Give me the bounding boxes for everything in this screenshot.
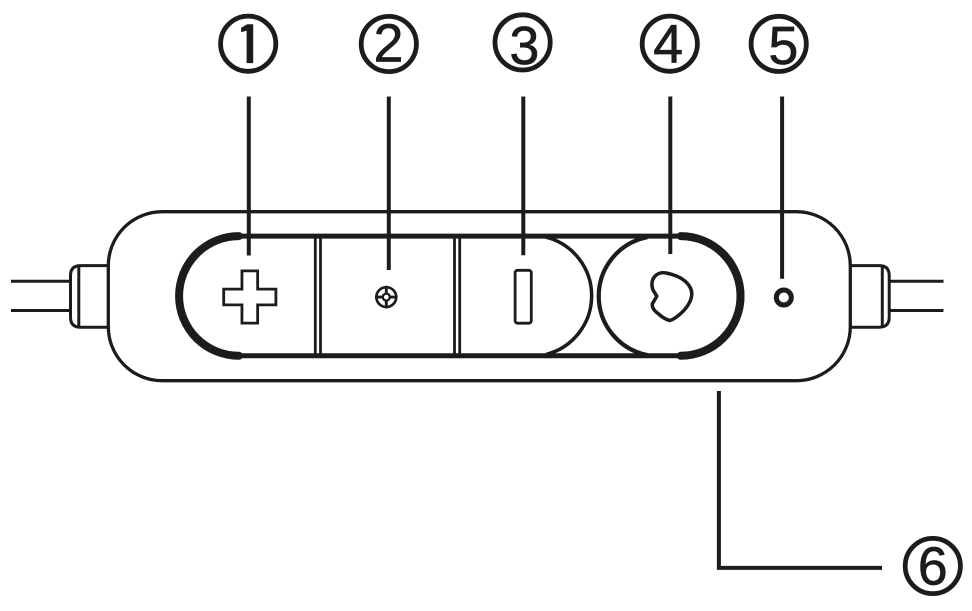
svg-text:5: 5 [769, 17, 799, 76]
callout circle 5 [751, 16, 806, 76]
callout circle 6 [905, 538, 960, 597]
svg-text:6: 6 [918, 538, 948, 597]
cluster left thick cap [179, 236, 239, 356]
strain relief bushing right [848, 266, 889, 328]
wire right [889, 281, 944, 310]
callout circle 4 [642, 15, 697, 74]
wire left [11, 281, 71, 310]
leader line 1 [247, 97, 251, 256]
leader line 6 [719, 391, 882, 568]
heart icon (button 4) [652, 273, 692, 321]
callout circle 1 [221, 16, 276, 71]
callout circle 2 [361, 14, 416, 73]
leader line 2 [387, 97, 391, 271]
plus icon (volume up button 1) [224, 271, 276, 323]
button cluster pill [179, 236, 742, 356]
button 3 circle right-half arc [546, 237, 591, 354]
button 4 circle left-half arc [599, 237, 648, 355]
divider lines between button 2 and 3 [455, 237, 460, 356]
leader line 4 [668, 97, 672, 255]
svg-text:3: 3 [510, 17, 540, 76]
cluster right thick cap [681, 236, 741, 356]
divider lines between button 1 and 2 [315, 237, 320, 356]
callout circle 3 [495, 15, 550, 76]
strain relief bushing left [71, 266, 111, 328]
remote body [108, 212, 850, 381]
crosshair icon (button 2) [375, 286, 398, 309]
leader line 3 [521, 97, 525, 256]
microphone hole (5) [776, 290, 791, 305]
bar icon (button 3) [515, 270, 531, 323]
svg-text:4: 4 [653, 15, 683, 74]
leader line 5 [780, 97, 784, 279]
svg-text:2: 2 [374, 14, 404, 73]
